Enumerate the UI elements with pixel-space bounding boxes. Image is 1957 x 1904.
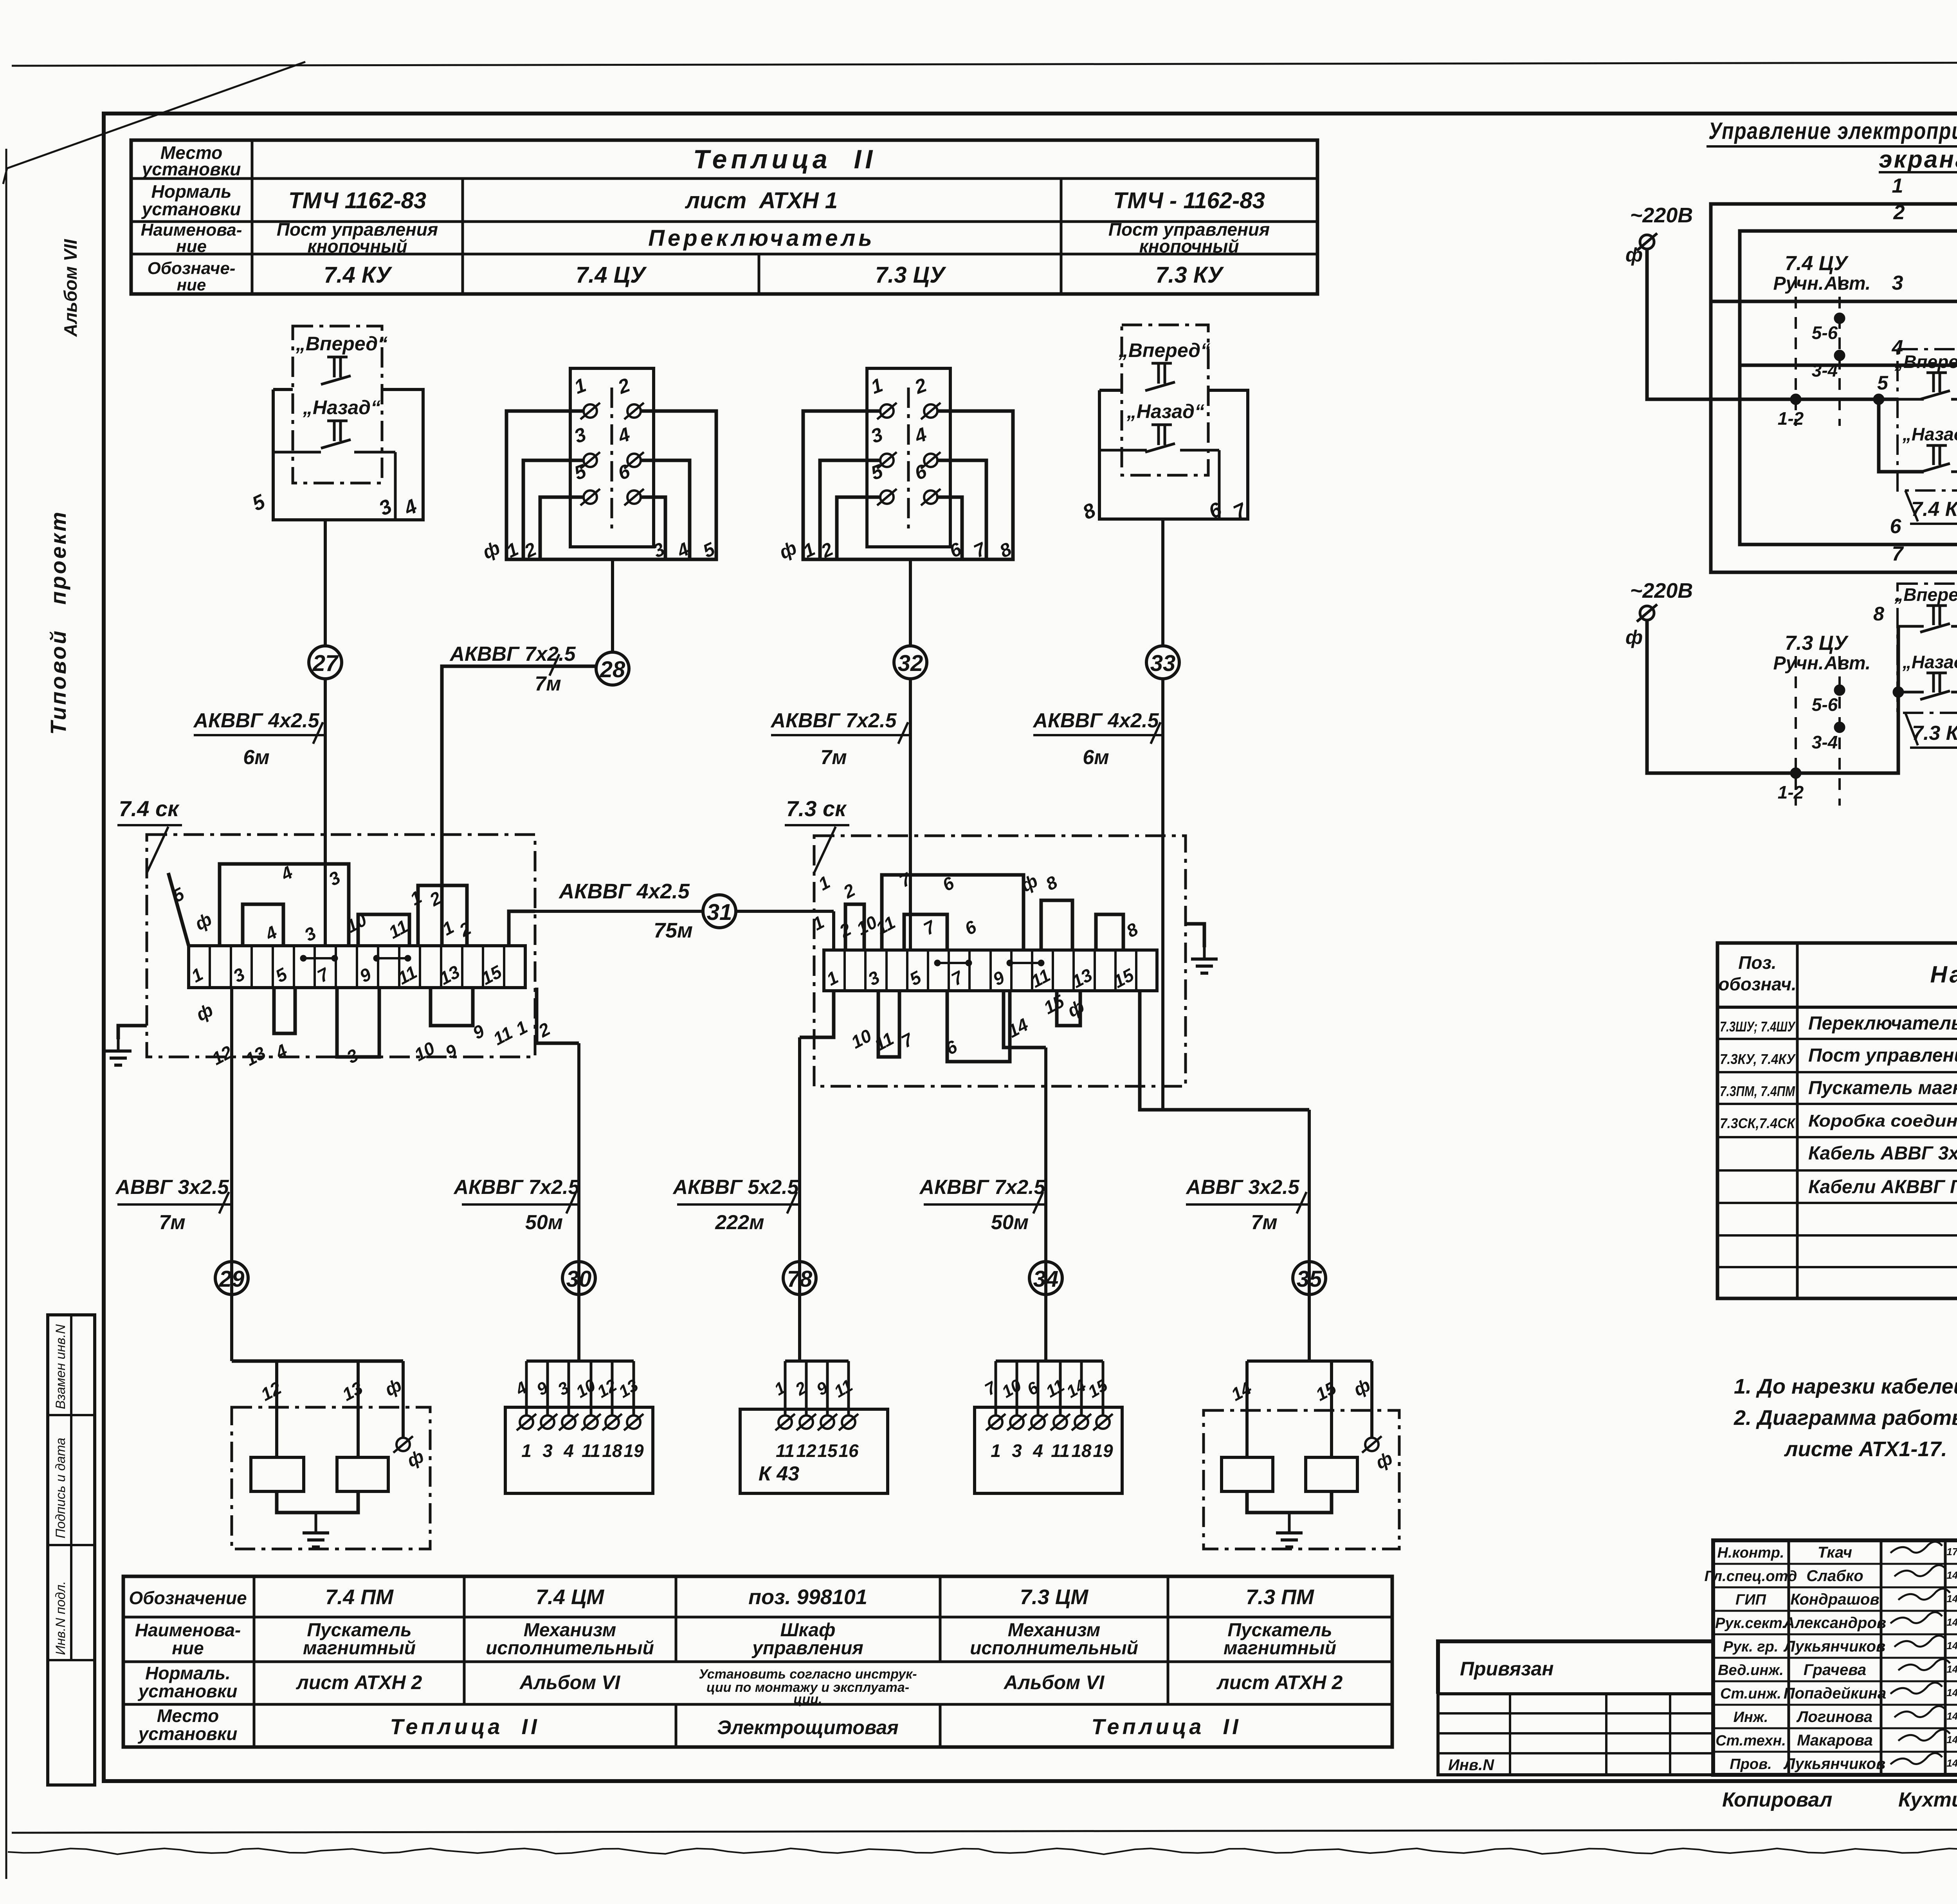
svg-text:3: 3 [868, 423, 886, 447]
title block outline [1713, 1540, 1957, 1775]
svg-text:7.3 ЦУ: 7.3 ЦУ [1785, 632, 1849, 654]
svg-text:3: 3 [542, 1441, 553, 1461]
svg-text:12: 12 [796, 1441, 816, 1461]
cable circle 35 [1293, 1262, 1326, 1295]
svg-text:Электрощитовая: Электрощитовая [717, 1716, 899, 1738]
svg-text:Переключатель: Переключатель [648, 225, 875, 251]
svg-text:4: 4 [912, 423, 930, 447]
svg-text:7.3ПМ, 7.4ПМ: 7.3ПМ, 7.4ПМ [1720, 1083, 1795, 1099]
svg-text:3: 3 [325, 867, 344, 890]
starter box 7.4pm bus [577, 1295, 580, 1361]
svg-text:ф: ф [1350, 1374, 1373, 1400]
svg-text:13: 13 [615, 1376, 642, 1402]
svg-text:8: 8 [1123, 919, 1141, 941]
svg-text:2. Диаграмма работы переключ: 2. Диаграмма работы переключателей дана … [1734, 1406, 1957, 1430]
cable circle 29 [215, 1262, 248, 1295]
svg-text:Инж.: Инж. [1734, 1709, 1768, 1725]
privyazan table [1438, 1694, 1713, 1775]
wire cable 27 down to box 7.4sk [324, 679, 327, 946]
parts table header separator [1717, 1006, 1957, 1009]
motor box left coil 1 [251, 1457, 304, 1491]
button Назад symbol S4 [1151, 424, 1172, 426]
svg-text:18: 18 [1071, 1441, 1092, 1461]
svg-text:3-4: 3-4 [1812, 732, 1838, 752]
svg-text:„Вперед“: „Вперед“ [296, 333, 387, 355]
cable 33 wire down [1161, 679, 1164, 1110]
title block signature columns [1788, 1540, 1790, 1775]
svg-text:Кухтинова: Кухтинова [1898, 1789, 1957, 1811]
svg-text:7: 7 [1892, 543, 1904, 565]
wire Вперед contact 7.4KU [1898, 398, 1924, 401]
svg-text:4: 4 [261, 922, 280, 945]
svg-text:магнитный: магнитный [303, 1638, 416, 1659]
cable circle 32 [894, 646, 927, 679]
svg-text:АКВВГ 7х2.5: АКВВГ 7х2.5 [453, 1176, 580, 1199]
svg-text:Грачева: Грачева [1804, 1661, 1866, 1679]
svg-text:29: 29 [219, 1266, 245, 1292]
svg-text:1: 1 [407, 887, 425, 909]
cable wire 34 vertical [1044, 1048, 1047, 1361]
svg-text:1-2: 1-2 [1778, 782, 1804, 802]
svg-text:8: 8 [1042, 872, 1061, 894]
wire exit to cable 34 [1004, 991, 1046, 1048]
svg-text:7.3 КУ: 7.3 КУ [1912, 722, 1957, 745]
svg-text:Слабко: Слабко [1806, 1567, 1863, 1585]
svg-text:7.4 КУ: 7.4 КУ [1911, 498, 1957, 521]
svg-text:7.3 ск: 7.3 ск [786, 796, 847, 821]
svg-text:14.01.86: 14.01.86 [1946, 1687, 1957, 1698]
svg-text:„Назад“: „Назад“ [1902, 652, 1957, 672]
svg-text:Александров: Александров [1783, 1614, 1886, 1632]
svg-text:5: 5 [272, 963, 291, 986]
svg-text:14.01.86: 14.01.86 [1946, 1710, 1957, 1722]
push-button post 7.4KU dash-dot boundary [293, 326, 382, 483]
svg-text:10: 10 [848, 1025, 875, 1053]
svg-text:7.4 КУ: 7.4 КУ [324, 262, 392, 288]
svg-text:АКВВГ 4х2.5: АКВВГ 4х2.5 [558, 880, 690, 903]
cable circle 28 [596, 652, 629, 685]
svg-text:Ручн.: Ручн. [1773, 653, 1824, 674]
svg-text:75м: 75м [654, 919, 693, 942]
svg-text:6: 6 [961, 916, 980, 939]
svg-text:5-6: 5-6 [1812, 694, 1838, 715]
svg-text:Установить согласно инструк-: Установить согласно инструк- [699, 1667, 917, 1682]
svg-text:30: 30 [566, 1266, 592, 1292]
svg-text:1: 1 [868, 374, 886, 398]
svg-text:1: 1 [823, 967, 842, 990]
svg-text:2: 2 [836, 919, 854, 942]
packet switch 7.3CU body [867, 368, 950, 547]
cable wire 35 vertical [1308, 1110, 1311, 1361]
svg-text:14.01.86: 14.01.86 [1946, 1569, 1957, 1581]
svg-text:7м: 7м [1251, 1211, 1277, 1234]
connection box K43 [740, 1409, 888, 1493]
motor box left dash-dot [232, 1407, 430, 1549]
starter box 7.4pm terminals [520, 1415, 533, 1429]
wire bridge strip 7.3sk [937, 962, 969, 964]
svg-text:4: 4 [563, 1441, 574, 1461]
svg-text:установки: установки [138, 1681, 238, 1701]
svg-text:7м: 7м [535, 673, 561, 695]
cable 28 jog wire to junction box [442, 666, 596, 946]
svg-text:„Назад“: „Назад“ [1126, 400, 1204, 422]
svg-text:1: 1 [188, 964, 206, 986]
svg-text:ф: ф [479, 537, 503, 563]
svg-text:12: 12 [594, 1376, 620, 1402]
svg-text:15: 15 [1085, 1376, 1111, 1402]
svg-text:Взамен инв.N: Взамен инв.N [53, 1324, 68, 1409]
svg-text:ф: ф [776, 537, 800, 563]
svg-text:9: 9 [469, 1021, 488, 1043]
connection box K43 terminals [778, 1415, 792, 1429]
svg-text:АКВВГ 5х2.5: АКВВГ 5х2.5 [672, 1176, 799, 1199]
svg-text:ние: ние [172, 1638, 204, 1658]
svg-text:7м: 7м [820, 746, 847, 769]
wire staples above strip 7.3sk [845, 904, 864, 950]
svg-text:1: 1 [1892, 175, 1903, 197]
svg-text:7.3 ПМ: 7.3 ПМ [1246, 1585, 1314, 1609]
svg-text:7м: 7м [159, 1211, 185, 1234]
svg-text:1. До нарезки кабелей длины: 1. До нарезки кабелей длины трасс уточни… [1734, 1375, 1957, 1398]
svg-text:7.3ШУ; 7.4ШУ: 7.3ШУ; 7.4ШУ [1720, 1019, 1796, 1035]
svg-text:„Вперед“: „Вперед“ [1894, 584, 1957, 605]
svg-text:10: 10 [998, 1376, 1025, 1402]
svg-text:установки: установки [141, 199, 241, 219]
svg-text:9: 9 [989, 967, 1008, 990]
svg-text:Ст.техн.: Ст.техн. [1716, 1733, 1786, 1749]
svg-text:10: 10 [411, 1038, 438, 1065]
selector 7.4CU contact 3-4 [1834, 350, 1845, 361]
svg-text:Поз.: Поз. [1738, 952, 1776, 973]
motor box right dash-dot [1204, 1410, 1399, 1549]
cable circle 78 [783, 1262, 816, 1295]
svg-text:1: 1 [521, 1441, 532, 1461]
svg-text:Наименование: Наименование [1930, 961, 1957, 988]
svg-text:7.3 ЦУ: 7.3 ЦУ [875, 262, 946, 288]
svg-text:Логинова: Логинова [1796, 1708, 1872, 1725]
wire from S2 to cable 28 [611, 559, 614, 652]
svg-text:1: 1 [571, 374, 589, 398]
svg-text:Управление электроприводами: Управление электроприводами теплозащитно… [1708, 118, 1957, 144]
svg-text:магнитный: магнитный [1224, 1638, 1336, 1659]
svg-text:ф: ф [191, 909, 215, 934]
svg-text:14: 14 [1228, 1378, 1255, 1405]
top-left table grid [131, 140, 1317, 294]
svg-text:Теплица II: Теплица II [1091, 1714, 1241, 1739]
svg-text:31: 31 [707, 900, 732, 925]
svg-text:3: 3 [1012, 1441, 1022, 1461]
cable circle 27 [309, 646, 342, 679]
svg-text:Наименова-: Наименова- [135, 1620, 241, 1640]
cable wire 29 vertical [230, 988, 233, 1361]
svg-text:Нормаль.: Нормаль. [145, 1663, 231, 1683]
svg-text:1: 1 [815, 872, 833, 894]
scan artifact diagonal top-left [7, 62, 305, 168]
svg-text:ф: ф [1373, 1448, 1396, 1473]
cable wire 78 vertical [798, 1037, 801, 1361]
selector 7.3CU dashed poles [1795, 656, 1797, 806]
svg-text:ции.: ции. [794, 1692, 822, 1707]
svg-text:Пост управления кнопочный ПК: Пост управления кнопочный ПКЕ 222-2 [1808, 1045, 1957, 1066]
svg-text:Рук. гр.: Рук. гр. [1723, 1639, 1779, 1655]
sheet outer trim left [5, 149, 7, 1879]
svg-text:11: 11 [872, 912, 899, 939]
svg-text:ние: ние [177, 276, 206, 294]
svg-text:Инв.N: Инв.N [1448, 1756, 1494, 1774]
svg-text:2: 2 [615, 374, 633, 398]
svg-text:лист АТХН 2: лист АТХН 2 [296, 1671, 422, 1693]
wire staples above strip 7.4sk [220, 864, 349, 946]
cable circle 34 [1029, 1262, 1062, 1295]
svg-text:ГИП: ГИП [1735, 1592, 1766, 1608]
packet switch 7.4CU outer wiring [506, 411, 716, 559]
svg-text:Пускатель магнитный: Пускатель магнитный [1808, 1078, 1957, 1098]
svg-text:„Назад“: „Назад“ [303, 397, 380, 418]
junction dot 1-2 top [1790, 394, 1801, 405]
svg-text:Альбом VI: Альбом VI [519, 1671, 621, 1693]
selector 7.3CU contact 3-4 [1834, 722, 1845, 733]
svg-text:лист АТХН 1: лист АТХН 1 [685, 188, 838, 213]
contact line S4 [1099, 449, 1147, 452]
wire staples below strip 7.3sk [878, 991, 899, 1057]
svg-text:установки: установки [138, 1724, 238, 1744]
svg-text:„Вперед“: „Вперед“ [1894, 352, 1957, 372]
junction box 7.4sk terminal strip [189, 946, 525, 988]
svg-text:Инв.N подл.: Инв.N подл. [53, 1581, 68, 1655]
svg-text:4: 4 [615, 423, 633, 447]
svg-text:ф: ф [1625, 244, 1643, 266]
svg-text:поз. 998101: поз. 998101 [748, 1585, 867, 1609]
selector 7.3CU contact 5-6 [1834, 685, 1845, 696]
svg-text:2: 2 [912, 374, 930, 398]
push-button 7.3KU boundary [1898, 584, 1957, 713]
svg-text:14.01.86: 14.01.86 [1946, 1734, 1957, 1745]
svg-text:11: 11 [776, 1441, 795, 1461]
wire exit to cable 35 [1140, 991, 1309, 1110]
svg-text:ние: ние [176, 237, 207, 256]
margin table inv/podp [48, 1315, 95, 1785]
push-button post 7.3KU dash-dot boundary [1122, 325, 1208, 475]
svg-text:Копировал: Копировал [1722, 1789, 1832, 1811]
svg-text:1: 1 [512, 1017, 531, 1039]
sheet outer trim bottom [12, 1829, 1957, 1833]
svg-text:Альбом VII: Альбом VII [60, 239, 81, 337]
svg-text:Попадейкина: Попадейкина [1784, 1685, 1886, 1702]
selector 7.4CU contact 5-6 [1834, 313, 1845, 324]
svg-text:1: 1 [809, 912, 827, 934]
junction box 7.3sk dash-dot boundary [814, 836, 1186, 1086]
selector 7.4CU dashed poles [1795, 276, 1797, 426]
svg-text:Теплица II: Теплица II [390, 1714, 540, 1739]
svg-text:ф: ф [1064, 995, 1087, 1021]
ground 7.3sk [1186, 924, 1204, 947]
svg-text:17.01.86: 17.01.86 [1946, 1546, 1957, 1558]
wire staples below strip 7.4sk [274, 988, 295, 1033]
svg-text:установки: установки [141, 159, 241, 179]
svg-text:3: 3 [865, 967, 883, 990]
svg-text:Привязан: Привязан [1460, 1658, 1554, 1680]
button Вперед symbol [327, 356, 348, 359]
contact line S1 [273, 451, 321, 454]
svg-text:обознач.: обознач. [1718, 974, 1796, 994]
svg-text:3-4: 3-4 [1812, 360, 1838, 380]
cable circle 31 [703, 895, 736, 928]
parts table outline [1717, 943, 1957, 1298]
svg-text:3: 3 [230, 964, 248, 986]
svg-text:~220В: ~220В [1630, 204, 1693, 227]
svg-text:АВВГ 3х2.5: АВВГ 3х2.5 [115, 1176, 229, 1199]
svg-text:7: 7 [920, 916, 939, 939]
svg-text:7.4 ПМ: 7.4 ПМ [325, 1585, 394, 1609]
svg-text:7.3СК,7.4СК: 7.3СК,7.4СК [1720, 1115, 1796, 1131]
connection box K43 bus [798, 1295, 801, 1361]
cable circle 33 [1146, 646, 1179, 679]
cable circle 30 [562, 1262, 595, 1295]
svg-text:14.01.86: 14.01.86 [1946, 1593, 1957, 1605]
cable 32 wire down to box 7.3sk [909, 679, 912, 950]
svg-text:АКВВГ 7х2.5: АКВВГ 7х2.5 [770, 709, 897, 732]
motor box left wiring [230, 1295, 233, 1361]
svg-text:Авт.: Авт. [1824, 273, 1871, 294]
svg-text:12: 12 [258, 1378, 285, 1405]
svg-text:34: 34 [1033, 1266, 1059, 1292]
svg-text:7.4 ЦМ: 7.4 ЦМ [536, 1585, 604, 1609]
svg-text:5: 5 [906, 966, 925, 990]
svg-text:„Назад“: „Назад“ [1902, 424, 1957, 444]
motor box left coil 2 [337, 1457, 388, 1491]
svg-text:7.3 КУ: 7.3 КУ [1155, 262, 1224, 288]
svg-text:8: 8 [1079, 499, 1099, 524]
junction dot 1-2 bottom [1790, 768, 1801, 779]
svg-text:„Вперед“: „Вперед“ [1118, 339, 1210, 361]
svg-text:1: 1 [991, 1441, 1001, 1461]
svg-text:исполнительный: исполнительный [970, 1638, 1138, 1659]
motor box left phase terminal [396, 1438, 410, 1451]
svg-text:50м: 50м [525, 1211, 563, 1234]
svg-text:кнопочный: кнопочный [307, 236, 407, 256]
wire to cable 31 from 7.4sk [509, 911, 535, 946]
svg-text:АКВВГ 4х2.5: АКВВГ 4х2.5 [193, 709, 319, 732]
svg-text:Макарова: Макарова [1797, 1732, 1873, 1749]
svg-text:Кондрашов: Кондрашов [1790, 1591, 1879, 1608]
motor box right wiring [1308, 1295, 1311, 1361]
svg-text:7.4 ЦУ: 7.4 ЦУ [1785, 252, 1849, 275]
packet switch 7.4CU body [570, 368, 654, 547]
svg-text:14.01.86: 14.01.86 [1946, 1616, 1957, 1628]
packet switch 7.3CU outer wiring [803, 411, 1013, 559]
svg-text:Авт.: Авт. [1824, 653, 1871, 674]
svg-text:кнопочный: кнопочный [1139, 236, 1239, 256]
motor box right ground wires [1247, 1491, 1332, 1513]
svg-text:1-2: 1-2 [1778, 408, 1804, 429]
svg-text:Типовой проект: Типовой проект [46, 510, 70, 735]
svg-text:19: 19 [1093, 1441, 1113, 1461]
svg-text:10: 10 [573, 1376, 599, 1402]
svg-text:7.4 ск: 7.4 ск [119, 796, 180, 821]
starter box 7.3pm bottom [975, 1407, 1122, 1493]
svg-text:АКВВГ 7х2.5: АКВВГ 7х2.5 [919, 1176, 1045, 1199]
svg-text:7.4 ЦУ: 7.4 ЦУ [576, 262, 647, 288]
svg-text:4: 4 [400, 495, 421, 520]
svg-text:Кабели АКВВГ ГОСТ 1508-78: Кабели АКВВГ ГОСТ 1508-78 [1808, 1177, 1957, 1197]
wire bridge strip 5-6 7.4sk [303, 957, 335, 959]
svg-text:11: 11 [871, 1028, 897, 1055]
svg-text:11: 11 [1043, 1376, 1068, 1401]
junction box 7.4sk dash-dot boundary [147, 835, 535, 1057]
svg-text:11: 11 [582, 1441, 600, 1461]
svg-text:11: 11 [831, 1376, 856, 1401]
svg-text:Рук.сект.: Рук.сект. [1715, 1615, 1786, 1632]
svg-text:Обозначение: Обозначение [129, 1588, 247, 1608]
packet switch 7.4CU terminals [584, 404, 597, 418]
svg-text:28: 28 [600, 657, 625, 682]
svg-text:Подпись и дата: Подпись и дата [53, 1438, 68, 1538]
svg-text:2: 2 [840, 880, 858, 903]
svg-text:Вед.инж.: Вед.инж. [1718, 1662, 1784, 1679]
cable wire 30 vertical [577, 1043, 580, 1361]
svg-text:2: 2 [1893, 201, 1905, 224]
svg-text:7: 7 [314, 963, 333, 986]
svg-text:11: 11 [1051, 1441, 1070, 1461]
wire exit to cable 30 [537, 988, 579, 1043]
svg-text:16: 16 [838, 1441, 859, 1461]
svg-text:3: 3 [301, 923, 319, 945]
svg-text:Гл.спец.отд: Гл.спец.отд [1705, 1568, 1797, 1585]
push-button post 7.4KU wiring box [273, 389, 423, 520]
svg-text:Ст.инж.: Ст.инж. [1720, 1686, 1781, 1702]
svg-text:15: 15 [1312, 1377, 1340, 1405]
svg-text:2: 2 [456, 918, 474, 941]
privyazan box [1438, 1641, 1713, 1694]
svg-text:6: 6 [942, 1036, 960, 1059]
svg-text:листе АТХ1-17.: листе АТХ1-17. [1784, 1437, 1947, 1461]
wire Вперед contact 7.3KU [1898, 625, 1924, 628]
wire feed top to buttons [1647, 249, 1898, 399]
svg-text:Ручн.: Ручн. [1773, 273, 1824, 294]
svg-text:управления: управления [751, 1638, 863, 1659]
motor box right coil 1 [1222, 1457, 1273, 1491]
button Назад symbol [327, 420, 348, 422]
svg-text:3: 3 [375, 495, 395, 520]
button Вперед symbol S4 [1151, 362, 1172, 365]
svg-text:3: 3 [1892, 272, 1903, 294]
svg-text:35: 35 [1297, 1266, 1322, 1292]
packet switch 7.3CU terminals [880, 404, 894, 418]
svg-text:Кабель АВВГ 3х2.5-0.66 ГОСТ: Кабель АВВГ 3х2.5-0.66 ГОСТ 16442-80 [1808, 1143, 1957, 1164]
svg-text:5: 5 [249, 490, 269, 516]
svg-text:Лукьянчиков: Лукьянчиков [1783, 1755, 1886, 1772]
ground 7.4sk [118, 1026, 147, 1039]
svg-text:5: 5 [1877, 372, 1889, 394]
svg-text:Лукьянчиков: Лукьянчиков [1783, 1638, 1886, 1655]
svg-text:7: 7 [948, 966, 967, 990]
svg-text:Н.контр.: Н.контр. [1717, 1545, 1784, 1561]
bottom-left table grid [123, 1576, 1392, 1747]
svg-text:11: 11 [490, 1022, 516, 1049]
svg-text:27: 27 [312, 651, 339, 676]
svg-text:6м: 6м [1083, 746, 1109, 769]
svg-text:14: 14 [1063, 1376, 1089, 1402]
svg-text:50м: 50м [991, 1211, 1029, 1234]
motor box left ground wires [277, 1491, 358, 1513]
svg-text:222м: 222м [715, 1211, 764, 1234]
wire feed bottom [1647, 620, 1898, 773]
svg-text:4: 4 [1033, 1441, 1043, 1461]
svg-text:~220В: ~220В [1630, 579, 1693, 602]
svg-text:19: 19 [624, 1441, 644, 1461]
push-button 7.4KU boundary [1898, 349, 1957, 490]
wire from S3 to cable 32 [909, 559, 912, 646]
